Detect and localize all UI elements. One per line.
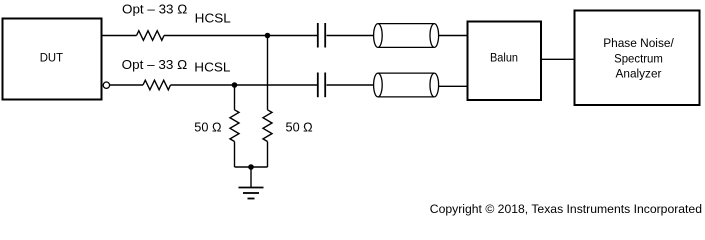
svg-text:HCSL: HCSL — [194, 60, 230, 75]
svg-text:Spectrum: Spectrum — [614, 52, 663, 66]
svg-text:DUT: DUT — [40, 51, 64, 65]
svg-text:50 Ω: 50 Ω — [286, 119, 313, 134]
svg-text:Copyright © 2018, Texas Instru: Copyright © 2018, Texas Instruments Inco… — [430, 202, 702, 216]
svg-text:HCSL: HCSL — [195, 11, 231, 26]
svg-text:Analyzer: Analyzer — [616, 66, 662, 80]
svg-text:Opt – 33 Ω: Opt – 33 Ω — [122, 57, 188, 72]
svg-text:50 Ω: 50 Ω — [194, 119, 221, 134]
svg-text:Opt – 33 Ω: Opt – 33 Ω — [122, 1, 187, 16]
svg-text:Phase Noise/: Phase Noise/ — [603, 36, 674, 50]
svg-text:Balun: Balun — [490, 51, 518, 65]
